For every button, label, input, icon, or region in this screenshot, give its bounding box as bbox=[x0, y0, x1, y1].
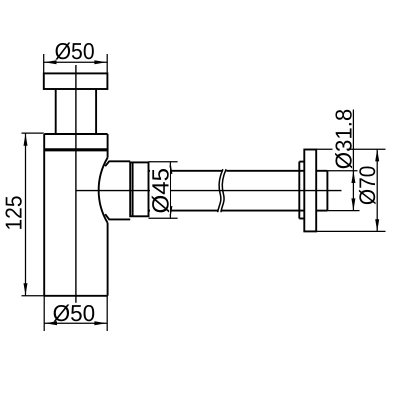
break squiggle line 1 bbox=[218, 169, 223, 212]
dimension lines (thin) bbox=[22, 54, 386, 331]
tube bottom line right of break bbox=[221, 210, 304, 212]
svg-text:125: 125 bbox=[0, 196, 26, 231]
collar thick line bbox=[44, 148, 107, 151]
dim Ø45: dimension line bbox=[169, 162, 171, 219]
svg-text:Ø45: Ø45 bbox=[147, 168, 173, 214]
wall flange front collar face bbox=[298, 162, 300, 219]
dim Ø70: dimension line bbox=[376, 149, 378, 231]
body right edge upper segment bbox=[107, 134, 109, 158]
vertical centerline of body bbox=[75, 65, 77, 303]
arrow Ø50 top right bbox=[94, 60, 106, 64]
body left edge bbox=[43, 134, 45, 296]
arrow Ø50 bottom right bbox=[94, 321, 106, 325]
dim Ø70: extension top bbox=[316, 148, 332, 150]
sleeve top edge bbox=[105, 161, 130, 166]
arrow 125 down bbox=[24, 283, 28, 295]
mask behind label &#216;45 bbox=[150, 168, 170, 215]
svg-text:Ø50: Ø50 bbox=[55, 38, 95, 64]
arrow Ø45 up bbox=[168, 162, 172, 174]
arrow 125 up bbox=[24, 134, 28, 146]
arrow Ø70 up bbox=[375, 149, 379, 161]
wall flange outline bbox=[304, 150, 316, 232]
dim 125: extension top bbox=[22, 132, 44, 134]
neck right edge bbox=[95, 89, 97, 134]
intersection arc of outlet with body bbox=[99, 158, 108, 223]
dim Ø70: extension bottom bbox=[316, 230, 385, 232]
dim Ø50 top: extension lines bbox=[43, 54, 45, 73]
tube top line left of break bbox=[149, 170, 223, 172]
horizontal centerline of tube bbox=[76, 190, 342, 192]
dim Ø31.8: dimension line bbox=[352, 110, 354, 211]
tube bottom line left of break bbox=[149, 210, 218, 212]
body right edge lower segment bbox=[107, 223, 109, 296]
svg-text:Ø50: Ø50 bbox=[53, 300, 96, 326]
dim Ø45: extension lines bbox=[149, 161, 178, 163]
pipe stub outer bottom bbox=[316, 210, 327, 212]
arrow Ø50 top left bbox=[44, 60, 56, 64]
dim 125: dimension line bbox=[25, 134, 27, 296]
pipe stub end face bbox=[326, 171, 328, 211]
break squiggle line 2 bbox=[221, 169, 226, 212]
wall flange front collar bottom bbox=[299, 218, 304, 220]
nut left face second line bbox=[132, 162, 134, 216]
arrow Ø31.8 down bbox=[351, 198, 355, 210]
dim Ø50 bottom: dimension line bbox=[44, 322, 107, 324]
arrowheads bbox=[24, 60, 380, 325]
sleeve bottom edge bbox=[105, 214, 130, 219]
dim Ø50 top: dimension line bbox=[44, 61, 107, 63]
top flange outline bbox=[44, 73, 108, 89]
nut outline bbox=[130, 162, 148, 216]
dim Ø31.8: extension lines bbox=[327, 170, 357, 172]
dim Ø50 bottom: extension lines bbox=[43, 296, 45, 331]
arrow Ø45 down bbox=[168, 206, 172, 218]
arrow Ø31.8 up bbox=[351, 171, 355, 183]
dim 125: extension bottom bbox=[22, 295, 45, 297]
tube top line right of break bbox=[226, 170, 304, 172]
svg-text:Ø31.8: Ø31.8 bbox=[330, 109, 356, 170]
arrow Ø70 down bbox=[375, 219, 379, 231]
body bottom line bbox=[44, 295, 107, 297]
body top line bbox=[44, 133, 107, 135]
neck left edge bbox=[55, 89, 57, 134]
arrow Ø50 bottom left bbox=[45, 321, 57, 325]
wall flange front collar top bbox=[299, 161, 304, 163]
pipe stub outer top bbox=[316, 170, 327, 172]
svg-text:Ø70: Ø70 bbox=[355, 166, 380, 206]
